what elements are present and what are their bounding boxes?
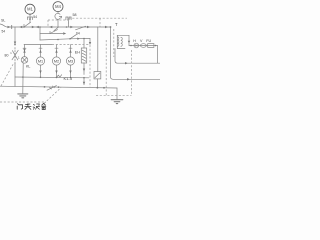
svg-text:EH: EH bbox=[75, 50, 81, 54]
svg-text:SL: SL bbox=[1, 19, 5, 23]
svg-text:KL: KL bbox=[26, 64, 30, 68]
svg-text:FU: FU bbox=[146, 39, 151, 43]
svg-text:T: T bbox=[115, 22, 118, 27]
svg-text:M4: M4 bbox=[55, 4, 61, 9]
svg-text:54: 54 bbox=[33, 15, 37, 19]
svg-text:58: 58 bbox=[73, 13, 77, 17]
svg-text:M2: M2 bbox=[54, 59, 59, 63]
svg-text:64: 64 bbox=[76, 31, 80, 35]
svg-text:80: 80 bbox=[5, 53, 9, 57]
svg-text:K1-3: K1-3 bbox=[64, 76, 73, 81]
svg-text:H: H bbox=[133, 39, 136, 43]
svg-text:M1: M1 bbox=[38, 59, 43, 63]
svg-text:M1: M1 bbox=[27, 7, 33, 12]
svg-text:M3: M3 bbox=[68, 59, 73, 63]
svg-text:54: 54 bbox=[2, 30, 6, 34]
